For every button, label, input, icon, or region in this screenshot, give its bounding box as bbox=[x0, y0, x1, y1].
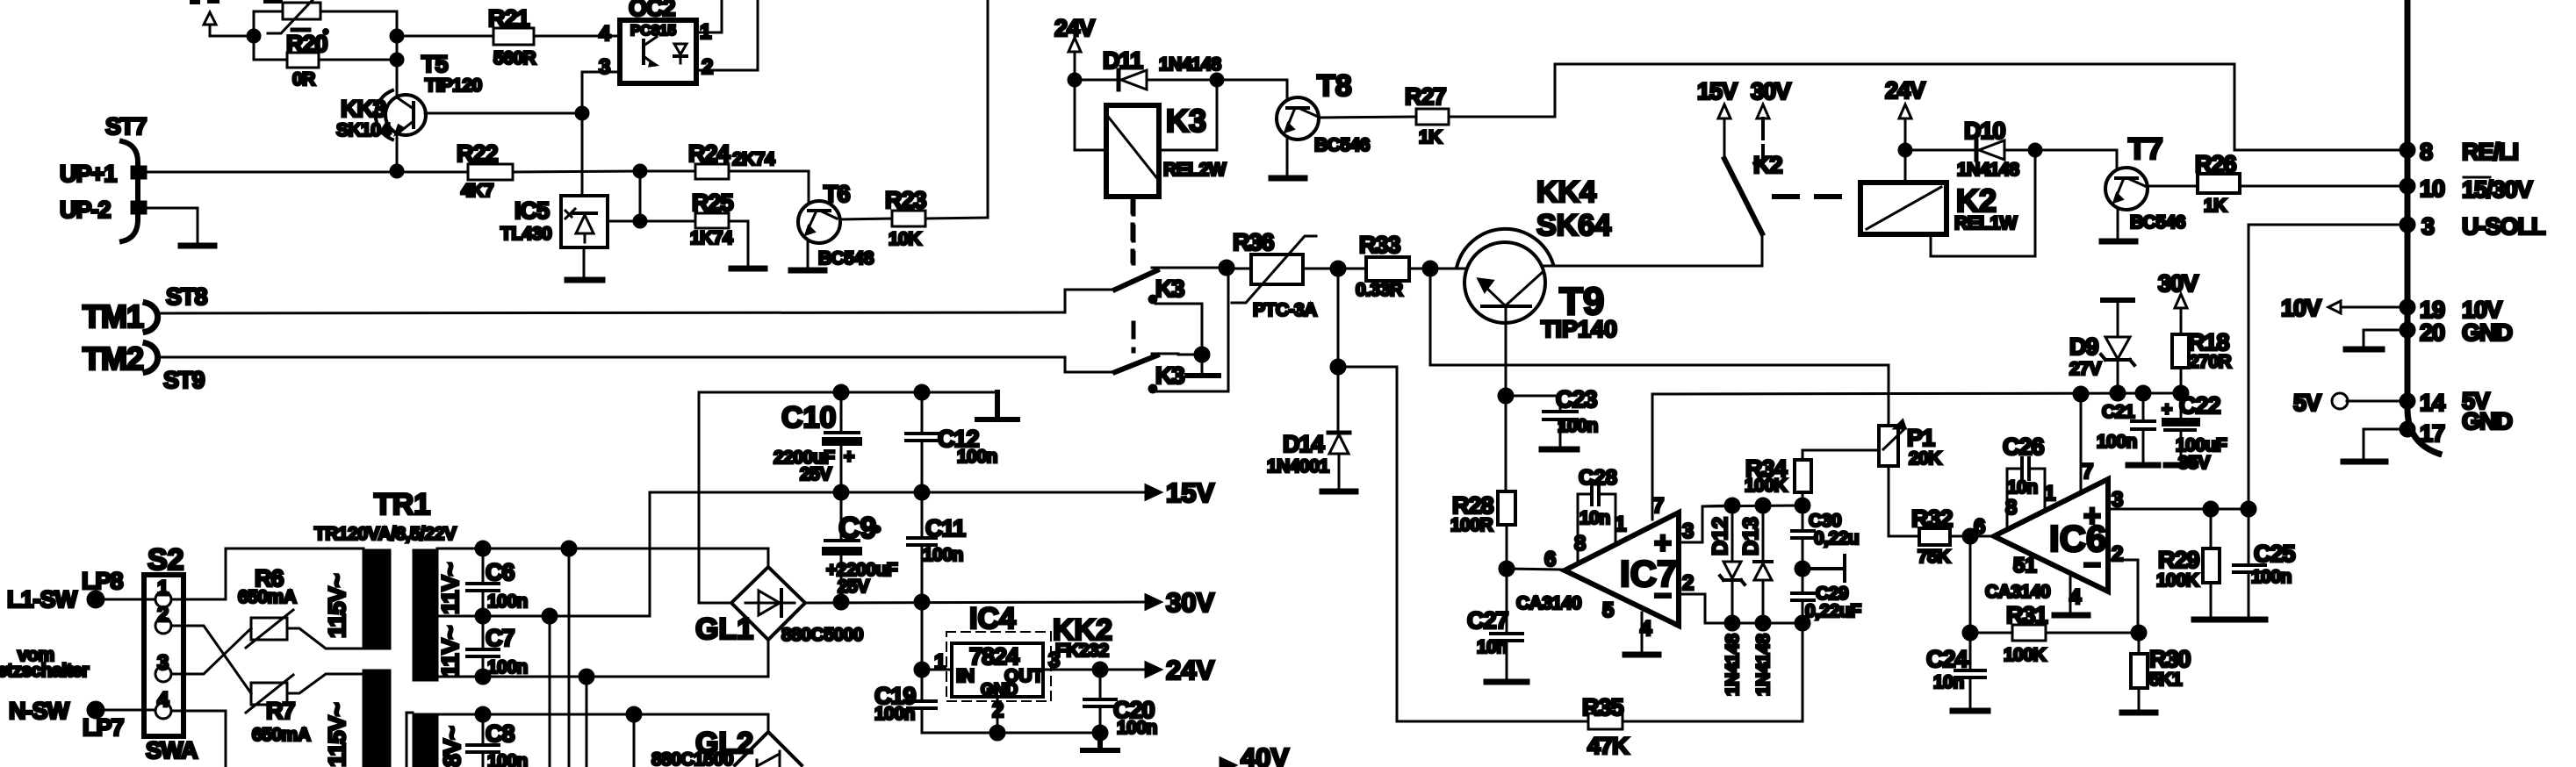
svg-text:3: 3 bbox=[1682, 520, 1694, 543]
svg-text:100n: 100n bbox=[487, 751, 528, 767]
capacitor C26 bbox=[2003, 434, 2055, 529]
svg-text:115V~: 115V~ bbox=[324, 574, 350, 638]
svg-text:UP-2: UP-2 bbox=[60, 197, 111, 223]
wire T9 collector to K2 bbox=[1543, 265, 1762, 268]
wire pin2 bbox=[2108, 560, 2138, 633]
node bbox=[1756, 498, 1770, 513]
svg-text:R21: R21 bbox=[488, 5, 530, 32]
svg-text:TM2: TM2 bbox=[83, 340, 143, 376]
svg-text:C22: C22 bbox=[2179, 392, 2220, 419]
svg-text:1N4148: 1N4148 bbox=[1753, 634, 1774, 696]
svg-text:1: 1 bbox=[157, 577, 169, 600]
supply arrow (cut label) bbox=[204, 12, 254, 36]
svg-text:30V: 30V bbox=[2158, 270, 2198, 297]
resistor R35 bbox=[1397, 694, 1802, 759]
svg-text:REL1W: REL1W bbox=[1954, 213, 2018, 233]
30V arrow bbox=[1146, 587, 1214, 618]
svg-text:0,22u: 0,22u bbox=[1814, 528, 1859, 548]
wire TM2 bbox=[156, 356, 1065, 359]
svg-text:C6: C6 bbox=[486, 559, 514, 585]
wire S2 pin4 down bbox=[171, 711, 226, 767]
svg-text:C28: C28 bbox=[1579, 466, 1617, 490]
svg-text:BC546: BC546 bbox=[1314, 135, 1370, 155]
svg-text:3: 3 bbox=[157, 651, 169, 675]
wire secondary mid rail bbox=[437, 492, 650, 616]
svg-text:C24: C24 bbox=[1926, 646, 1968, 672]
wire to T7 base bbox=[2035, 150, 2117, 168]
svg-text:4: 4 bbox=[599, 22, 611, 46]
resistor R31 bbox=[1970, 602, 2139, 665]
wire pin4 gnd bbox=[2069, 573, 2072, 613]
15V arrow bbox=[1146, 477, 1214, 508]
15V arrow bbox=[1697, 78, 1738, 159]
wire bottom row bbox=[1705, 622, 1802, 625]
capacitor C24 bbox=[1926, 633, 1985, 709]
connector ST7 bbox=[60, 113, 147, 241]
bridge rectifier GL1 bbox=[695, 567, 863, 646]
svg-text:100R: 100R bbox=[1450, 515, 1493, 535]
svg-text:BC546: BC546 bbox=[2130, 212, 2185, 233]
svg-text:20: 20 bbox=[2420, 319, 2444, 346]
wire bbox=[396, 11, 399, 97]
svg-text:100n: 100n bbox=[487, 591, 528, 612]
wire bbox=[253, 11, 255, 60]
node bbox=[2204, 502, 2218, 516]
wire T5 base bbox=[425, 112, 582, 115]
svg-text:2: 2 bbox=[1682, 571, 1694, 595]
24V arrow bbox=[1146, 655, 1214, 685]
svg-text:25V: 25V bbox=[838, 577, 869, 597]
svg-text:PTC-3A: PTC-3A bbox=[1253, 300, 1317, 320]
svg-text:R7: R7 bbox=[266, 698, 295, 724]
switch K3 contact 1 NC throw bbox=[1149, 296, 1202, 355]
svg-text:6: 6 bbox=[1544, 548, 1556, 571]
svg-text:IC5: IC5 bbox=[514, 197, 550, 224]
svg-text:R36: R36 bbox=[1233, 229, 1275, 255]
svg-text:L1-SW: L1-SW bbox=[7, 586, 78, 613]
svg-text:D10: D10 bbox=[1964, 118, 2005, 144]
wire OC2 pin2 bbox=[696, 0, 758, 70]
wire pin6 bbox=[1507, 569, 1565, 570]
svg-text:C7: C7 bbox=[486, 625, 514, 651]
node bbox=[391, 54, 403, 66]
capacitor C11 bbox=[908, 485, 966, 602]
ground bbox=[1271, 176, 1305, 182]
svg-text:+: + bbox=[844, 447, 854, 467]
svg-text:100n: 100n bbox=[957, 447, 997, 467]
wire pin2 bbox=[1679, 594, 1732, 623]
ground bbox=[181, 243, 214, 249]
diode D10 bbox=[1905, 118, 2035, 180]
svg-text:+: + bbox=[2162, 399, 2172, 419]
resistor R28 bbox=[1450, 491, 1515, 569]
resistor R27 bbox=[1319, 83, 1555, 147]
wire pin4 gnd bbox=[1641, 613, 1644, 653]
svg-text:ST8: ST8 bbox=[166, 283, 208, 310]
wire GND rail top bbox=[699, 391, 997, 394]
wire bbox=[639, 171, 642, 221]
node bbox=[391, 165, 403, 177]
capacitor C25 bbox=[2234, 509, 2296, 618]
resistor R34 bbox=[1745, 450, 1811, 505]
svg-text:100K: 100K bbox=[2156, 570, 2199, 591]
wire T7 emitter bbox=[2117, 209, 2119, 240]
pin 10 15/30V bbox=[2400, 176, 2533, 203]
svg-text:−: − bbox=[1654, 579, 1672, 613]
capacitor C28 bbox=[1578, 466, 1626, 563]
svg-text:47K: 47K bbox=[1587, 733, 1630, 759]
svg-text:100n: 100n bbox=[1117, 718, 1157, 738]
wire TM1 bbox=[156, 312, 1065, 313]
connector TM2/ST9 bbox=[83, 340, 205, 393]
transistor T7 bbox=[2105, 133, 2185, 233]
svg-text:0.33R: 0.33R bbox=[1356, 280, 1403, 300]
ground bbox=[2128, 462, 2158, 469]
resistor R25 bbox=[640, 190, 748, 267]
node bbox=[391, 30, 403, 42]
svg-text:4K7: 4K7 bbox=[461, 181, 493, 201]
svg-text:SWA: SWA bbox=[146, 737, 198, 763]
svg-text:1K: 1K bbox=[2204, 196, 2227, 216]
svg-text:24V: 24V bbox=[1166, 655, 1214, 685]
wire pin3 out bbox=[2108, 508, 2249, 511]
capacitor C23 bbox=[1506, 386, 1598, 448]
wire GL1 minus column bbox=[699, 392, 731, 603]
node bbox=[1795, 498, 1810, 513]
svg-text:100n: 100n bbox=[1558, 416, 1598, 436]
svg-text:GND: GND bbox=[981, 681, 1018, 699]
svg-text:IC4: IC4 bbox=[969, 602, 1016, 635]
capacitor C10 bbox=[774, 385, 862, 492]
svg-text:BC548: BC548 bbox=[818, 248, 874, 269]
node bbox=[1331, 360, 1345, 374]
svg-text:R29: R29 bbox=[2158, 547, 2200, 573]
pin 19 10V bbox=[2281, 295, 2502, 323]
heatsink KK2 label bbox=[1053, 613, 1112, 661]
ground bbox=[1322, 489, 1356, 495]
svg-text:Netzschalter: Netzschalter bbox=[0, 661, 89, 681]
svg-text:8: 8 bbox=[2420, 139, 2433, 165]
ground bbox=[977, 392, 1018, 419]
heatsink KK4 bbox=[1457, 176, 1611, 268]
ground bbox=[1083, 733, 1118, 750]
label vom Netzschalter bbox=[0, 645, 89, 681]
24V arrow bbox=[1885, 77, 1925, 150]
svg-text:100n: 100n bbox=[874, 704, 915, 724]
svg-text:10V: 10V bbox=[2281, 295, 2321, 321]
connector S2 bbox=[144, 543, 198, 763]
ground bbox=[2054, 613, 2088, 619]
svg-text:2K74: 2K74 bbox=[732, 149, 775, 169]
relay linkage dashed bbox=[1774, 194, 1848, 199]
svg-text:K3: K3 bbox=[1166, 103, 1206, 139]
wire pin7 bbox=[2080, 394, 2083, 493]
wire T9 emitter down bbox=[1505, 323, 1507, 491]
svg-text:−: − bbox=[2083, 548, 2101, 582]
PTC resistor R36 bbox=[1227, 229, 1317, 320]
svg-text:K3: K3 bbox=[1155, 362, 1184, 389]
svg-text:PC815: PC815 bbox=[630, 22, 676, 39]
svg-text:10K: 10K bbox=[889, 229, 921, 249]
node bbox=[1500, 562, 1514, 576]
wire P1 wiper bbox=[1802, 449, 1879, 452]
resistor R33 bbox=[1356, 232, 1467, 300]
svg-text:R26: R26 bbox=[2195, 151, 2237, 177]
svg-text:880C1500: 880C1500 bbox=[651, 749, 733, 767]
potentiometer P1 bbox=[1879, 365, 1941, 536]
svg-text:6: 6 bbox=[1974, 515, 1985, 539]
transistor T5 bbox=[385, 51, 482, 135]
svg-text:LP7: LP7 bbox=[83, 714, 124, 741]
wire S2 pin3 cross bbox=[171, 628, 251, 674]
svg-text:650mA: 650mA bbox=[252, 725, 311, 745]
scan artifact top edge bbox=[190, 0, 200, 4]
node bbox=[1725, 498, 1739, 513]
svg-text:REL2W: REL2W bbox=[1163, 160, 1227, 180]
diode D14 bbox=[1267, 431, 1349, 490]
svg-text:T7: T7 bbox=[2128, 133, 2163, 166]
ground bbox=[2194, 617, 2227, 623]
svg-text:T8: T8 bbox=[1317, 69, 1352, 103]
wire IC4 input column bbox=[921, 602, 924, 699]
capacitor C30 bbox=[1792, 505, 1859, 569]
capacitor C27 bbox=[1467, 569, 1522, 680]
svg-text:GL1: GL1 bbox=[695, 613, 753, 646]
svg-text:P1: P1 bbox=[1907, 425, 1935, 451]
svg-text:C8: C8 bbox=[486, 720, 514, 747]
svg-text:30V: 30V bbox=[1751, 78, 1791, 104]
svg-text:U-SOLL: U-SOLL bbox=[2462, 213, 2545, 240]
pin 20 GND bbox=[2346, 319, 2513, 349]
svg-text:1: 1 bbox=[2044, 482, 2055, 505]
capacitor C22 bbox=[2162, 392, 2227, 473]
node bbox=[1331, 262, 1345, 276]
wire IC4 gnd bbox=[997, 697, 999, 733]
svg-text:2: 2 bbox=[2112, 542, 2123, 566]
resistor R22 bbox=[457, 140, 640, 201]
capacitor C8 bbox=[467, 707, 528, 767]
ground bbox=[731, 266, 765, 272]
svg-text:D11: D11 bbox=[1103, 47, 1143, 74]
fuse R7 bbox=[246, 674, 363, 745]
wire T5 emitter bbox=[396, 135, 399, 171]
svg-text:75K: 75K bbox=[1918, 547, 1950, 567]
svg-text:R23: R23 bbox=[885, 187, 927, 213]
wire drop column 2 bbox=[562, 541, 576, 556]
svg-text:14: 14 bbox=[2420, 390, 2445, 416]
resistor R24 bbox=[640, 140, 809, 179]
svg-text:10n: 10n bbox=[1477, 637, 1507, 657]
svg-text:IN: IN bbox=[956, 666, 975, 686]
svg-text:RE/LI: RE/LI bbox=[2462, 139, 2518, 165]
svg-text:CA3140: CA3140 bbox=[1516, 593, 1581, 613]
switch K3 contact 1 bbox=[1065, 268, 1227, 312]
node bbox=[1220, 261, 1234, 275]
wire up to top edge bbox=[987, 0, 989, 218]
svg-text:11V~: 11V~ bbox=[437, 626, 464, 677]
svg-text:+: + bbox=[2083, 499, 2101, 533]
svg-text:5K1: 5K1 bbox=[2149, 670, 2183, 690]
capacitor C21 bbox=[2097, 386, 2155, 463]
24V arrow bbox=[1054, 15, 1095, 80]
svg-text:11V~: 11V~ bbox=[437, 563, 464, 614]
diode D11 bbox=[1075, 47, 1221, 90]
svg-text:KK3: KK3 bbox=[341, 96, 386, 122]
wire T8 emitter bbox=[1286, 139, 1289, 176]
ground bbox=[2232, 617, 2265, 623]
node bbox=[1499, 389, 1513, 403]
svg-text:C9: C9 bbox=[838, 512, 876, 545]
wire to T8 base bbox=[1217, 80, 1287, 98]
switch K3 contact 2 bbox=[1065, 354, 1202, 389]
30V arrow bbox=[1751, 78, 1791, 163]
svg-text:C21: C21 bbox=[2102, 402, 2135, 422]
svg-text:1K: 1K bbox=[1419, 127, 1442, 147]
capacitor C20 bbox=[1084, 670, 1157, 738]
wire S2 pin2 cross bbox=[171, 626, 251, 693]
svg-text:C10: C10 bbox=[781, 401, 836, 434]
svg-text:10n: 10n bbox=[1933, 672, 1964, 692]
svg-text:TR1: TR1 bbox=[374, 488, 430, 521]
resistor R32 bbox=[1911, 505, 1994, 567]
svg-text:560R: 560R bbox=[493, 48, 536, 68]
wire IC5 ref bbox=[608, 220, 640, 223]
switch K2 blade bbox=[1724, 152, 1782, 266]
ground bbox=[1953, 708, 1988, 714]
pin 8 RE/LI bbox=[2400, 139, 2518, 165]
ground bbox=[567, 277, 602, 283]
transistor T9 bbox=[1464, 242, 1617, 342]
opto-coupler OC2 bbox=[599, 0, 713, 83]
node bbox=[2074, 387, 2088, 401]
capacitor C29 bbox=[1792, 569, 1861, 623]
node bbox=[990, 726, 1004, 740]
node bbox=[576, 107, 588, 119]
svg-text:20K: 20K bbox=[1909, 448, 1941, 469]
wire secondary top rail bbox=[437, 548, 768, 567]
svg-text:SK64: SK64 bbox=[1536, 209, 1611, 242]
svg-text:1N4001: 1N4001 bbox=[1267, 456, 1329, 477]
wire bbox=[96, 599, 155, 601]
node bbox=[1795, 562, 1810, 576]
transistor T8 bbox=[1277, 69, 1370, 155]
svg-text:1N4148: 1N4148 bbox=[1159, 54, 1221, 75]
node bbox=[2241, 502, 2256, 516]
svg-text:51: 51 bbox=[2013, 554, 2037, 577]
wire IC4 out / 24V bbox=[1043, 669, 1146, 671]
ground bbox=[2102, 239, 2135, 245]
node bbox=[2029, 144, 2041, 156]
svg-text:0R: 0R bbox=[292, 69, 315, 90]
node bbox=[2132, 626, 2146, 640]
wire drop column 4 bbox=[627, 707, 641, 721]
ground bbox=[2122, 710, 2155, 716]
svg-text:R35: R35 bbox=[1582, 694, 1624, 720]
svg-text:TR120VA/8,5/22V: TR120VA/8,5/22V bbox=[314, 524, 457, 544]
svg-text:27V: 27V bbox=[2069, 359, 2101, 379]
wire OC2 pin3 bbox=[582, 72, 620, 196]
wire 30V rail bbox=[805, 602, 1146, 603]
node bbox=[1963, 626, 1977, 640]
ground bbox=[1486, 679, 1527, 685]
svg-text:N-SW: N-SW bbox=[9, 698, 69, 724]
wire OC2 pin1 bbox=[696, 0, 722, 32]
svg-text:5: 5 bbox=[1602, 599, 1614, 622]
wire pin3 out bbox=[1679, 505, 1732, 542]
wire bbox=[1303, 268, 1366, 270]
svg-text:3: 3 bbox=[2421, 213, 2435, 240]
wire S2 pin1 to primary bbox=[171, 548, 363, 599]
30V rail wire bbox=[1652, 393, 2181, 394]
wire bbox=[96, 709, 155, 712]
svg-text:D12: D12 bbox=[1709, 517, 1732, 556]
wire IC4 in bbox=[922, 669, 952, 671]
svg-text:R24: R24 bbox=[688, 140, 730, 167]
wire UP+ line bbox=[146, 171, 468, 174]
capacitor C9 bbox=[822, 485, 898, 602]
svg-text:7: 7 bbox=[1652, 494, 1664, 518]
svg-text:1: 1 bbox=[1615, 513, 1626, 536]
ground bbox=[1625, 652, 1659, 658]
svg-text:TL430: TL430 bbox=[500, 224, 551, 244]
wire voltage-set rail to P1 bbox=[1430, 269, 1889, 365]
svg-text:R27: R27 bbox=[1405, 83, 1446, 110]
resistor R29 bbox=[2156, 509, 2220, 618]
svg-text:T6: T6 bbox=[824, 181, 850, 207]
svg-text:TIP120: TIP120 bbox=[425, 75, 482, 96]
wire drop column 1 bbox=[543, 609, 557, 623]
ground bbox=[791, 268, 824, 274]
fuse R6 bbox=[238, 565, 363, 649]
svg-text:TIP140: TIP140 bbox=[1541, 316, 1617, 342]
svg-text:7: 7 bbox=[2082, 460, 2093, 484]
switch K3 contact 2 NC throw bbox=[1149, 268, 1228, 392]
svg-text:0,22uF: 0,22uF bbox=[1805, 601, 1861, 621]
svg-text:K2: K2 bbox=[1753, 152, 1782, 178]
svg-text:R25: R25 bbox=[692, 190, 734, 216]
resistor R18 bbox=[2172, 329, 2232, 393]
svg-text:880C5000: 880C5000 bbox=[781, 625, 863, 645]
node bbox=[1093, 726, 1107, 740]
wire 15V rail bbox=[650, 491, 1146, 494]
svg-text:C25: C25 bbox=[2254, 541, 2296, 567]
wire gnd rail bbox=[922, 732, 1100, 735]
node bbox=[1899, 144, 1911, 156]
svg-text:R33: R33 bbox=[1359, 232, 1401, 258]
heatsink KK3 bbox=[336, 90, 392, 140]
svg-text:2: 2 bbox=[702, 55, 713, 79]
svg-text:+: + bbox=[1654, 527, 1672, 560]
capacitor C6 bbox=[467, 541, 528, 623]
node bbox=[1963, 529, 1977, 543]
ground bbox=[1187, 373, 1219, 378]
capacitor C7 bbox=[467, 616, 528, 684]
wire to pin 8 bbox=[1555, 64, 2407, 150]
svg-text:LP8: LP8 bbox=[82, 568, 124, 594]
svg-text:ST7: ST7 bbox=[105, 113, 147, 140]
node bbox=[2174, 386, 2188, 400]
svg-text:10n: 10n bbox=[2007, 477, 2038, 498]
resistor R21 bbox=[397, 5, 620, 68]
wire UP- to ground bbox=[146, 208, 198, 244]
svg-text:5V: 5V bbox=[2293, 390, 2321, 416]
svg-text:100n: 100n bbox=[2097, 432, 2137, 452]
svg-text:T5: T5 bbox=[421, 51, 448, 77]
svg-text:8: 8 bbox=[1574, 532, 1586, 556]
node bbox=[2111, 386, 2125, 400]
svg-text:C26: C26 bbox=[2003, 434, 2045, 460]
relay K2 coil bbox=[1860, 150, 2035, 256]
